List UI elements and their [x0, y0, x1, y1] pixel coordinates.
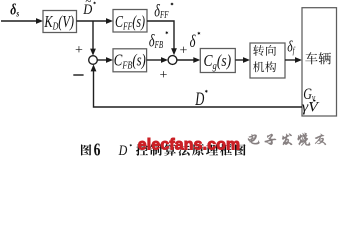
block Cg(s) [200, 49, 235, 73]
block KD(V) [43, 11, 77, 33]
svg-text:Cg(s): Cg(s) [204, 53, 232, 72]
node gammaV output label [302, 99, 321, 116]
svg-text:γV: γV [302, 99, 321, 116]
wire CFF(s) to summing junction S2 [147, 21, 177, 55]
svg-text:D: D [118, 142, 128, 159]
summing junction S2 [168, 56, 177, 65]
svg-text:δ: δ [190, 32, 196, 52]
wire steering to vehicle [285, 57, 302, 63]
sign - at S1 bottom input [73, 74, 83, 76]
wire input to KD(V) [1, 18, 43, 24]
svg-text:+: + [180, 44, 188, 59]
svg-text:~: ~ [85, 0, 91, 8]
caption figure 6 D* control algorithm block diagram [81, 141, 246, 160]
svg-text:+: + [75, 43, 83, 58]
node deltaFB* label [149, 31, 168, 51]
node delta_f label [287, 39, 296, 56]
wire Cg(s) to steering block [235, 57, 250, 63]
sign + at S2 top input [180, 44, 188, 59]
svg-text:KD(V): KD(V) [44, 13, 75, 33]
node Gy output label [303, 86, 315, 104]
node delta_s input label [10, 1, 19, 19]
node D~* label [82, 0, 96, 17]
wire S1 to CFB(s) [97, 57, 113, 63]
node delta* label [190, 32, 201, 52]
watermark dianzifashaoyou script [248, 133, 326, 146]
wire KD(V) to CFF(s) [77, 18, 114, 24]
svg-text:+: + [160, 68, 168, 83]
block CFF(s) [113, 10, 147, 33]
watermark elecfans.com logo [138, 137, 241, 154]
sign + at S2 left input [160, 68, 168, 83]
svg-text:elecfans.com: elecfans.com [138, 137, 241, 154]
wire feedback vehicle to S1 [91, 64, 302, 107]
wire CFB(s) to S2 [147, 57, 168, 63]
sign + at S1 top input [75, 43, 83, 58]
wire S2 to Cg(s) [177, 57, 200, 63]
block steering mechanism 转向机构 [250, 43, 285, 78]
summing junction S1 [89, 56, 98, 65]
block CFB(s) [113, 49, 147, 72]
svg-text:D: D [195, 90, 205, 110]
svg-text:6: 6 [94, 141, 101, 160]
wire branch D~* down to summing junction S1 [90, 21, 96, 56]
node D* feedback label [195, 90, 208, 110]
block vehicle 车辆 [302, 8, 337, 116]
node deltaFF* label [154, 2, 173, 21]
